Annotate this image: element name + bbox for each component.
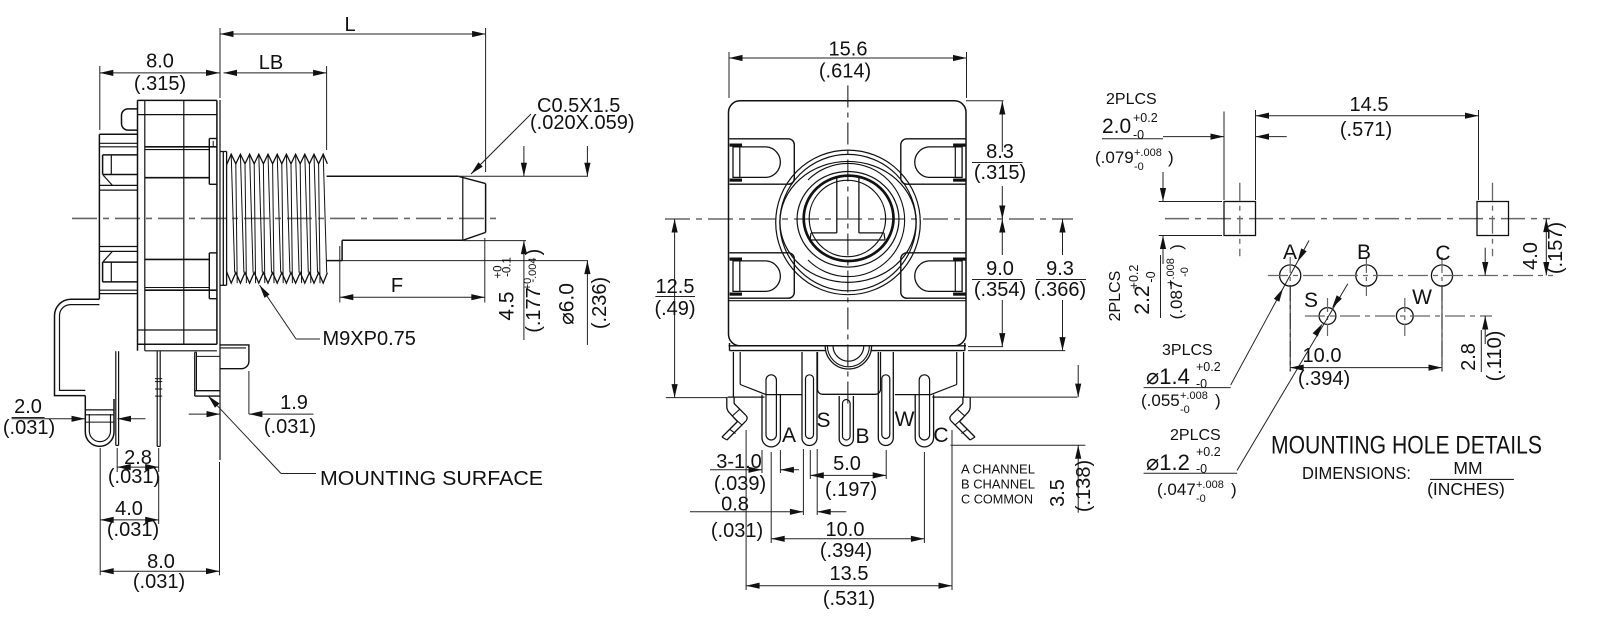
dimension 2.0 pad width	[1223, 112, 1225, 201]
mounting pad left	[1224, 202, 1256, 236]
svg-text:(.031): (.031)	[264, 416, 316, 438]
svg-text:C: C	[1435, 242, 1450, 265]
bushing circle 2	[780, 154, 916, 290]
svg-text:14.5: 14.5	[1350, 94, 1389, 116]
svg-text:(.236): (.236)	[589, 277, 611, 329]
svg-text:(.020X.059): (.020X.059)	[530, 112, 635, 134]
body top tab	[122, 109, 138, 130]
svg-text:5.0: 5.0	[833, 453, 861, 475]
dimension 9.3 (.366)	[1062, 219, 1064, 255]
svg-text:(.354): (.354)	[974, 279, 1026, 301]
svg-text:10.0: 10.0	[826, 519, 865, 541]
wing boss bottom-left	[729, 253, 794, 298]
dimension 2.8 (.110)	[1484, 248, 1486, 276]
svg-text:1.9: 1.9	[280, 392, 308, 414]
mounting bracket side view	[55, 299, 100, 395]
terminal pins side view	[115, 351, 117, 445]
svg-text:-0: -0	[1179, 267, 1191, 277]
thread root arc (3/4)	[808, 163, 905, 276]
dimension 4.0 (.031)	[99, 448, 101, 575]
svg-text:+0.2: +0.2	[1127, 265, 1141, 290]
svg-text:-0: -0	[1133, 128, 1144, 142]
mounting pad right	[1477, 202, 1509, 236]
hole A	[1280, 265, 1301, 286]
svg-text:(.031): (.031)	[3, 417, 55, 439]
svg-text:8.0: 8.0	[146, 51, 174, 73]
svg-text:W: W	[1412, 286, 1432, 309]
svg-text:+.008: +.008	[1196, 479, 1224, 491]
dimension L	[219, 28, 221, 98]
pin S	[802, 352, 817, 446]
svg-text:2PLCS: 2PLCS	[1106, 91, 1157, 108]
pin W	[878, 352, 893, 446]
dimension 3-1.0 (.039)	[761, 450, 763, 473]
wing boss top-right	[901, 139, 966, 184]
svg-text:A: A	[1283, 241, 1297, 264]
svg-text:2.8: 2.8	[1458, 343, 1480, 371]
svg-text:(.315): (.315)	[134, 73, 186, 95]
dimension 8.0 (.315) body depth	[99, 66, 101, 130]
dimension LB thread length	[326, 66, 328, 150]
svg-text:(INCHES): (INCHES)	[1427, 479, 1505, 499]
dimension 4.5 flat height	[523, 146, 525, 176]
svg-text:(.031): (.031)	[108, 466, 160, 488]
svg-text:(.110): (.110)	[1484, 331, 1506, 382]
dimension 10.0 (.394)	[770, 452, 772, 543]
svg-text:(.614): (.614)	[819, 61, 871, 83]
bent mounting leg left	[726, 397, 728, 406]
hole W	[1396, 308, 1413, 325]
shaft circle (bold)	[804, 176, 894, 261]
svg-text:(.197): (.197)	[825, 479, 877, 501]
svg-text:A: A	[782, 424, 796, 447]
svg-text:M9XP0.75: M9XP0.75	[323, 328, 416, 350]
metal clip bottom band	[145, 289, 217, 291]
nut ellipse	[797, 172, 899, 268]
svg-text:⌀6.0: ⌀6.0	[556, 283, 579, 325]
dimension 13.5 (.531)	[745, 430, 747, 590]
svg-text:+0.2: +0.2	[1196, 445, 1221, 459]
encoder main body block	[137, 100, 139, 350]
svg-text:-.004: -.004	[527, 257, 539, 282]
svg-text:13.5: 13.5	[830, 563, 869, 585]
extension lines for 4.5 and dia 6.0	[342, 260, 588, 262]
svg-text:3PLCS: 3PLCS	[1162, 342, 1213, 359]
svg-text:+.008: +.008	[1180, 390, 1208, 402]
svg-text:): )	[523, 249, 545, 256]
bushing flange	[219, 100, 221, 460]
wing boss top-left	[729, 139, 794, 184]
centerline horizontal (front view)	[665, 218, 1073, 220]
hole row centerlines	[1268, 275, 1553, 277]
svg-text:(.315): (.315)	[974, 162, 1026, 184]
svg-text:-0: -0	[1196, 377, 1207, 391]
svg-text:(.055: (.055	[1141, 391, 1180, 410]
hole S	[1319, 308, 1336, 325]
svg-text:B: B	[1357, 241, 1371, 264]
hole B	[1356, 265, 1377, 286]
metal clip top band	[145, 146, 217, 148]
dimension 8.3 (.315)	[966, 100, 1004, 102]
dimension 2.2 pad height	[1159, 201, 1222, 203]
svg-text:(.177: (.177	[523, 287, 545, 333]
central detent bump	[825, 346, 871, 369]
svg-text:+.008: +.008	[1134, 147, 1162, 159]
svg-text:(.031): (.031)	[711, 520, 763, 542]
svg-text:W: W	[895, 408, 915, 431]
svg-text:2.0: 2.0	[14, 396, 42, 418]
svg-text:(.079: (.079	[1095, 148, 1134, 167]
centerline horizontal (mounting view)	[1165, 218, 1550, 220]
skirt outline right	[963, 352, 965, 397]
svg-text:12.5: 12.5	[656, 276, 695, 298]
washer ellipse	[780, 161, 916, 282]
svg-text:+0.2: +0.2	[1196, 360, 1221, 374]
svg-text:2PLCS: 2PLCS	[1107, 271, 1124, 322]
svg-text:(.157): (.157)	[1545, 222, 1567, 274]
svg-text:S: S	[1304, 289, 1318, 312]
leader dia1.2 to hole S	[1237, 284, 1348, 471]
dimension 4.0 (.157)	[1545, 219, 1547, 276]
svg-text:-0.1: -0.1	[502, 257, 514, 277]
svg-text:A CHANNEL: A CHANNEL	[961, 463, 1035, 477]
dimension 5.0 (.197)	[809, 450, 811, 479]
skirt outline left	[732, 352, 734, 397]
threaded bushing M9XP0.75	[227, 154, 328, 165]
svg-text:15.6: 15.6	[829, 39, 868, 61]
skirt outline center	[818, 352, 881, 394]
dimension 14.5 (.571)	[1478, 110, 1480, 200]
svg-text:L: L	[344, 14, 355, 36]
dimension 10.0 (.394) holes	[1289, 285, 1291, 372]
dimension dia 6.0 shaft	[586, 146, 588, 176]
svg-text:LB: LB	[259, 52, 283, 74]
svg-text:8.0: 8.0	[147, 551, 175, 573]
svg-text:+0.2: +0.2	[1133, 111, 1158, 125]
svg-text:2PLCS: 2PLCS	[1170, 427, 1221, 444]
shaft bore circle	[809, 180, 885, 256]
svg-text:C COMMON: C COMMON	[961, 493, 1033, 507]
mounting surface callout	[208, 396, 281, 474]
shaft slot and flat	[836, 177, 838, 233]
pin B	[839, 396, 853, 446]
front body outline	[729, 101, 967, 346]
svg-text:(.039): (.039)	[714, 473, 766, 495]
svg-text:8.3: 8.3	[986, 141, 1014, 163]
dimension 9.0 (.354)	[1001, 219, 1003, 255]
svg-text:9.0: 9.0	[986, 258, 1014, 280]
svg-text:⌀1.2: ⌀1.2	[1146, 450, 1190, 475]
svg-text:B CHANNEL: B CHANNEL	[961, 478, 1035, 492]
svg-text:B: B	[855, 425, 869, 448]
svg-text:2.0: 2.0	[1102, 115, 1131, 138]
svg-text:(.047: (.047	[1157, 480, 1196, 499]
svg-text:-0: -0	[1180, 404, 1190, 416]
dimension F	[339, 246, 341, 303]
svg-text:): )	[1231, 480, 1237, 499]
dimension 1.9 (.031) tab	[248, 371, 250, 414]
pin C	[915, 395, 933, 447]
svg-text:MM: MM	[1453, 458, 1482, 478]
dimension 15.6 (.614)	[728, 52, 730, 98]
hole C	[1431, 265, 1452, 286]
pin A	[762, 395, 780, 447]
svg-text:9.3: 9.3	[1046, 258, 1074, 280]
wing boss bottom-right	[901, 253, 966, 298]
svg-text:F: F	[391, 275, 403, 297]
svg-text:(.394): (.394)	[820, 540, 872, 562]
bracket front block and side tab	[194, 352, 196, 396]
dimension 8.0 (.031) bottom	[219, 462, 221, 575]
svg-text:-0: -0	[1196, 462, 1207, 476]
svg-text:): )	[1167, 244, 1186, 250]
svg-text:4.5: 4.5	[496, 291, 519, 320]
chamfer callout C0.5X1.5	[471, 114, 531, 174]
svg-text:+.008: +.008	[1165, 258, 1177, 286]
svg-text:DIMENSIONS:: DIMENSIONS:	[1302, 463, 1411, 483]
svg-text:C: C	[933, 424, 948, 447]
svg-text:MOUNTING HOLE DETAILS: MOUNTING HOLE DETAILS	[1271, 432, 1542, 460]
svg-text:(.531): (.531)	[823, 588, 875, 610]
svg-text:-0: -0	[1144, 271, 1158, 282]
thread callout M9XP0.75	[260, 285, 297, 339]
bent mounting leg right	[969, 397, 971, 406]
body step line	[729, 300, 967, 302]
svg-text:(.394): (.394)	[1298, 368, 1350, 390]
shaft with D-flat and chamfer	[327, 175, 459, 177]
svg-text:-0: -0	[1196, 493, 1206, 505]
svg-text:10.0: 10.0	[1303, 345, 1342, 367]
centerline (left view shaft axis)	[72, 217, 502, 219]
encoder body rear section	[98, 134, 100, 299]
dimension 3.5 (.138)	[967, 396, 1077, 398]
svg-text:4.0: 4.0	[115, 498, 143, 520]
svg-text:⌀1.4: ⌀1.4	[1146, 364, 1190, 389]
svg-text:4.0: 4.0	[1520, 242, 1542, 270]
bushing outer circle	[776, 150, 921, 295]
lower body block	[729, 345, 967, 347]
svg-text:(.571): (.571)	[1340, 119, 1392, 141]
svg-text:3.5: 3.5	[1047, 479, 1069, 507]
centerline vertical (front view)	[847, 86, 849, 409]
svg-text:(.49): (.49)	[654, 298, 695, 320]
svg-text:(.138): (.138)	[1073, 460, 1095, 512]
svg-text:): )	[1168, 148, 1174, 167]
svg-text:-0: -0	[1134, 161, 1144, 173]
svg-text:(.031): (.031)	[133, 571, 185, 593]
dimension 12.5 (.49)	[666, 397, 727, 399]
svg-text:S: S	[816, 409, 830, 432]
svg-text:MOUNTING SURFACE: MOUNTING SURFACE	[320, 468, 543, 490]
leader dia1.4 to hole A	[1231, 241, 1309, 386]
svg-text:(.031): (.031)	[107, 519, 159, 541]
dimension 2.8 (.031)	[116, 448, 118, 472]
svg-text:(.366): (.366)	[1034, 279, 1086, 301]
svg-text:): )	[1215, 391, 1221, 410]
